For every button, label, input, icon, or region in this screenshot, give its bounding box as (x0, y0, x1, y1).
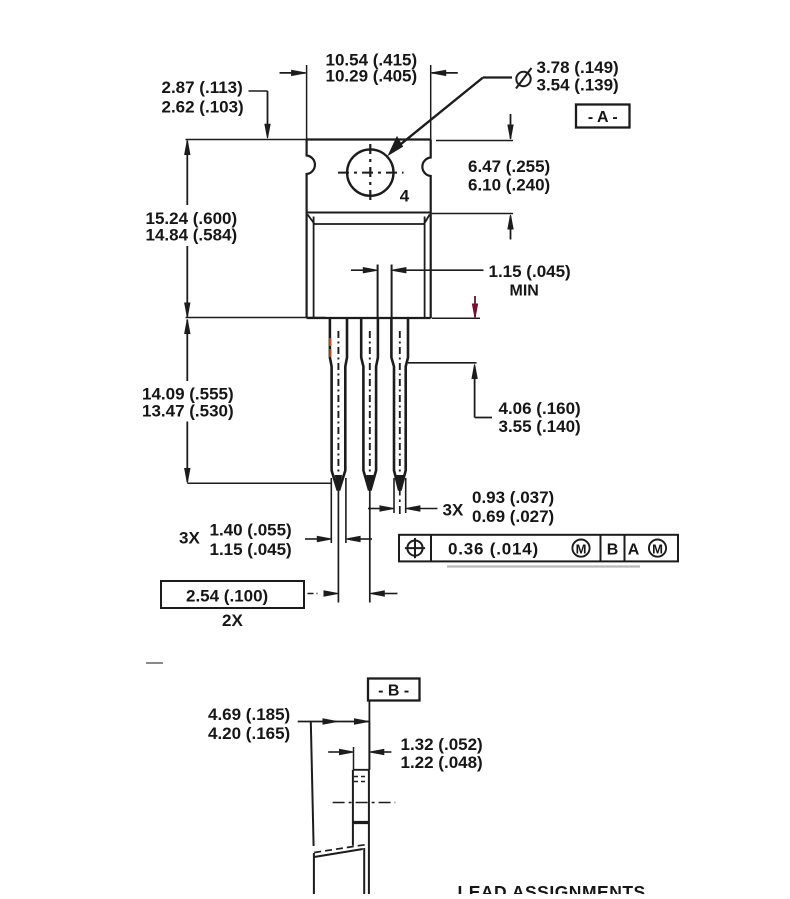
svg-text:1.22 (.048): 1.22 (.048) (401, 753, 483, 772)
svg-text:4.69 (.185): 4.69 (.185) (208, 705, 290, 724)
svg-text:LEAD ASSIGNMENTS: LEAD ASSIGNMENTS (458, 882, 646, 894)
svg-text:A: A (628, 542, 640, 559)
svg-text:M: M (652, 542, 663, 557)
svg-text:6.10 (.240): 6.10 (.240) (468, 176, 550, 195)
svg-text:3.78 (.149): 3.78 (.149) (537, 58, 619, 77)
svg-text:4.06 (.160): 4.06 (.160) (499, 399, 581, 418)
svg-text:1.32 (.052): 1.32 (.052) (401, 735, 483, 754)
svg-text:3.55 (.140): 3.55 (.140) (499, 417, 581, 436)
svg-text:B: B (607, 542, 619, 559)
svg-text:0.93 (.037): 0.93 (.037) (472, 488, 554, 507)
svg-text:4: 4 (400, 187, 410, 206)
svg-text:MIN: MIN (510, 283, 539, 300)
svg-text:2.54 (.100): 2.54 (.100) (186, 587, 268, 606)
svg-text:3X: 3X (443, 501, 464, 520)
svg-text:1.15 (.045): 1.15 (.045) (489, 262, 571, 281)
svg-text:1.40 (.055): 1.40 (.055) (210, 521, 292, 540)
svg-text:14.84 (.584): 14.84 (.584) (146, 226, 238, 245)
svg-text:3X: 3X (179, 529, 200, 548)
svg-text:10.29 (.405): 10.29 (.405) (326, 67, 418, 86)
svg-text:2.87 (.113): 2.87 (.113) (162, 78, 243, 97)
svg-text:6.47 (.255): 6.47 (.255) (468, 157, 550, 176)
svg-text:0.69 (.027): 0.69 (.027) (472, 507, 554, 526)
svg-text:- A -: - A - (588, 109, 618, 126)
svg-text:- B -: - B - (378, 683, 409, 700)
svg-text:4.20 (.165): 4.20 (.165) (208, 724, 290, 743)
svg-text:13.47 (.530): 13.47 (.530) (142, 402, 234, 421)
svg-text:3.54 (.139): 3.54 (.139) (537, 76, 619, 95)
svg-text:M: M (576, 542, 587, 557)
svg-text:0.36 (.014): 0.36 (.014) (448, 540, 539, 559)
svg-text:2.62 (.103): 2.62 (.103) (162, 98, 244, 117)
svg-text:2X: 2X (222, 611, 243, 630)
svg-text:1.15 (.045): 1.15 (.045) (210, 540, 292, 559)
